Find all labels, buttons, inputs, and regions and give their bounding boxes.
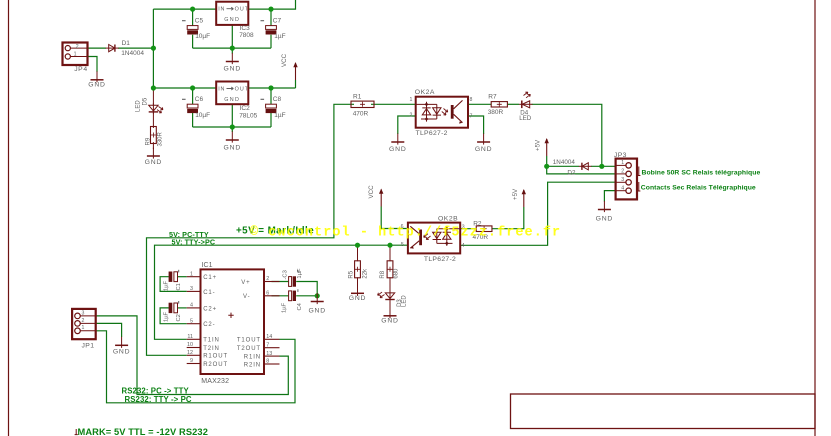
svg-text:380R: 380R	[488, 109, 504, 116]
svg-text:C8: C8	[273, 96, 282, 103]
svg-text:13: 13	[266, 351, 272, 357]
svg-text:9: 9	[190, 358, 193, 364]
svg-text:1N4004: 1N4004	[121, 50, 144, 57]
svg-text:GND: GND	[88, 82, 106, 89]
svg-text:1µF: 1µF	[282, 302, 288, 313]
svg-text:4: 4	[190, 303, 193, 309]
svg-text:MAX232: MAX232	[201, 378, 229, 385]
svg-text:R9: R9	[145, 137, 151, 145]
svg-text:6: 6	[266, 291, 269, 297]
svg-text:1: 1	[74, 51, 77, 57]
svg-text:R7: R7	[488, 93, 497, 100]
svg-text:Contacts Sec Relais Télégraphi: Contacts Sec Relais Télégraphique	[641, 185, 756, 192]
svg-text:C4: C4	[297, 302, 303, 310]
svg-text:5: 5	[190, 318, 193, 324]
svg-text:2: 2	[410, 113, 413, 119]
svg-text:680: 680	[394, 268, 400, 279]
svg-text:R1OUT: R1OUT	[203, 354, 228, 360]
svg-text:1µF: 1µF	[274, 33, 285, 40]
svg-text:2: 2	[266, 276, 269, 282]
svg-text:OUT: OUT	[235, 7, 250, 13]
svg-text:-C3: -C3	[282, 270, 288, 279]
svg-text:10: 10	[187, 342, 193, 348]
svg-text:5: 5	[401, 242, 404, 248]
svg-text:R1IN: R1IN	[244, 355, 261, 361]
svg-text:D2: D2	[567, 169, 576, 176]
svg-text:GND: GND	[224, 97, 240, 103]
svg-text:GND: GND	[389, 146, 407, 153]
svg-text:VCC: VCC	[368, 185, 375, 199]
svg-text:R5: R5	[348, 270, 354, 278]
svg-text:MARK= 5V TTL = -12V RS232: MARK= 5V TTL = -12V RS232	[78, 427, 208, 436]
svg-text:IN: IN	[218, 87, 225, 93]
svg-text:D5: D5	[143, 97, 149, 105]
svg-text:1µF: 1µF	[163, 280, 169, 291]
svg-text:IC1: IC1	[202, 262, 213, 269]
svg-text:4: 4	[621, 186, 624, 192]
svg-text:OUT: OUT	[235, 87, 250, 93]
svg-text:7808: 7808	[239, 32, 254, 39]
svg-text:R2IN: R2IN	[244, 362, 261, 368]
svg-text:1µF: 1µF	[163, 311, 169, 322]
svg-text:GND: GND	[224, 145, 242, 152]
svg-text:T2OUT: T2OUT	[237, 346, 261, 352]
svg-text:T1IN: T1IN	[203, 338, 220, 344]
svg-text:8: 8	[266, 359, 269, 365]
svg-text:10µF: 10µF	[195, 112, 210, 119]
svg-text:JP1: JP1	[82, 342, 95, 349]
svg-text:3: 3	[621, 177, 624, 183]
svg-text:C2-: C2-	[203, 322, 215, 328]
svg-text:VCC: VCC	[281, 53, 288, 67]
svg-text:22k: 22k	[363, 268, 369, 279]
svg-text:R8: R8	[380, 270, 386, 278]
svg-text:LED: LED	[401, 295, 407, 307]
svg-text:C6: C6	[195, 96, 204, 103]
svg-text:2: 2	[621, 169, 624, 175]
svg-text:R1: R1	[353, 94, 362, 101]
svg-text:JP3: JP3	[614, 152, 627, 159]
svg-text:GND: GND	[308, 308, 326, 315]
svg-text:IN: IN	[218, 7, 225, 13]
svg-text:R2OUT: R2OUT	[203, 362, 228, 368]
svg-text:7: 7	[266, 342, 269, 348]
svg-text:Bobine 50R SC Relais télégraph: Bobine 50R SC Relais télégraphique	[642, 169, 761, 176]
svg-text:C1: C1	[176, 283, 182, 290]
svg-text:OK2B: OK2B	[438, 215, 458, 222]
svg-text:IC2: IC2	[240, 105, 251, 112]
svg-text:IC3: IC3	[240, 25, 251, 32]
svg-text:4: 4	[462, 243, 465, 249]
svg-text:C2: C2	[176, 314, 182, 321]
svg-text:LED: LED	[136, 100, 142, 112]
svg-text:1N4004: 1N4004	[553, 159, 576, 166]
svg-text:470R: 470R	[353, 111, 369, 118]
svg-text:GND: GND	[145, 159, 163, 166]
svg-text:8: 8	[470, 97, 473, 103]
svg-text:2: 2	[76, 44, 79, 50]
svg-text:GND: GND	[381, 317, 399, 324]
svg-text:GND: GND	[224, 17, 240, 23]
svg-text:RS232: TTY -> PC: RS232: TTY -> PC	[125, 395, 192, 404]
svg-text:TLP627-2: TLP627-2	[424, 256, 456, 263]
svg-text:1µF: 1µF	[297, 268, 303, 279]
svg-text:D1: D1	[122, 40, 131, 47]
svg-text:GND: GND	[224, 66, 242, 73]
svg-text:1: 1	[82, 325, 85, 331]
svg-text:GND: GND	[113, 349, 131, 356]
svg-text:+5V: +5V	[512, 188, 519, 200]
svg-text:LED: LED	[519, 115, 532, 122]
svg-text:1µF: 1µF	[274, 112, 285, 119]
svg-text:GND: GND	[475, 146, 493, 153]
svg-text:V-: V-	[243, 294, 250, 300]
svg-text:11: 11	[187, 334, 193, 340]
svg-text:3: 3	[82, 310, 85, 316]
svg-text:TLP627-2: TLP627-2	[416, 130, 448, 137]
svg-text:5V: TTY->PC: 5V: TTY->PC	[172, 238, 216, 247]
svg-text:C7: C7	[273, 18, 282, 25]
svg-text:C5: C5	[195, 18, 204, 25]
svg-text:78L05: 78L05	[239, 112, 257, 119]
svg-text:1: 1	[621, 160, 624, 166]
svg-text:10µF: 10µF	[195, 33, 210, 40]
svg-text:12: 12	[187, 350, 193, 356]
svg-text:C1+: C1+	[203, 275, 217, 281]
svg-text:V+: V+	[241, 280, 250, 286]
svg-text:14: 14	[266, 334, 272, 340]
svg-text:GND: GND	[596, 216, 614, 223]
svg-text:OK2A: OK2A	[415, 89, 435, 96]
svg-text:+5V: +5V	[534, 139, 541, 151]
svg-text:T2IN: T2IN	[203, 346, 220, 352]
svg-text:JP4: JP4	[74, 66, 88, 73]
svg-text:330R: 330R	[157, 131, 163, 146]
svg-text:2: 2	[82, 318, 85, 324]
svg-text:© cwcontrol - http://f5zzz.fre: © cwcontrol - http://f5zzz.free.fr	[250, 225, 561, 240]
svg-text:T1OUT: T1OUT	[237, 338, 261, 344]
svg-text:GND: GND	[349, 295, 367, 302]
svg-text:7: 7	[470, 114, 473, 120]
svg-text:3: 3	[190, 286, 193, 292]
svg-text:1: 1	[410, 97, 413, 103]
svg-text:C1-: C1-	[203, 290, 215, 296]
svg-text:C2+: C2+	[203, 306, 217, 312]
svg-text:1: 1	[190, 271, 193, 277]
